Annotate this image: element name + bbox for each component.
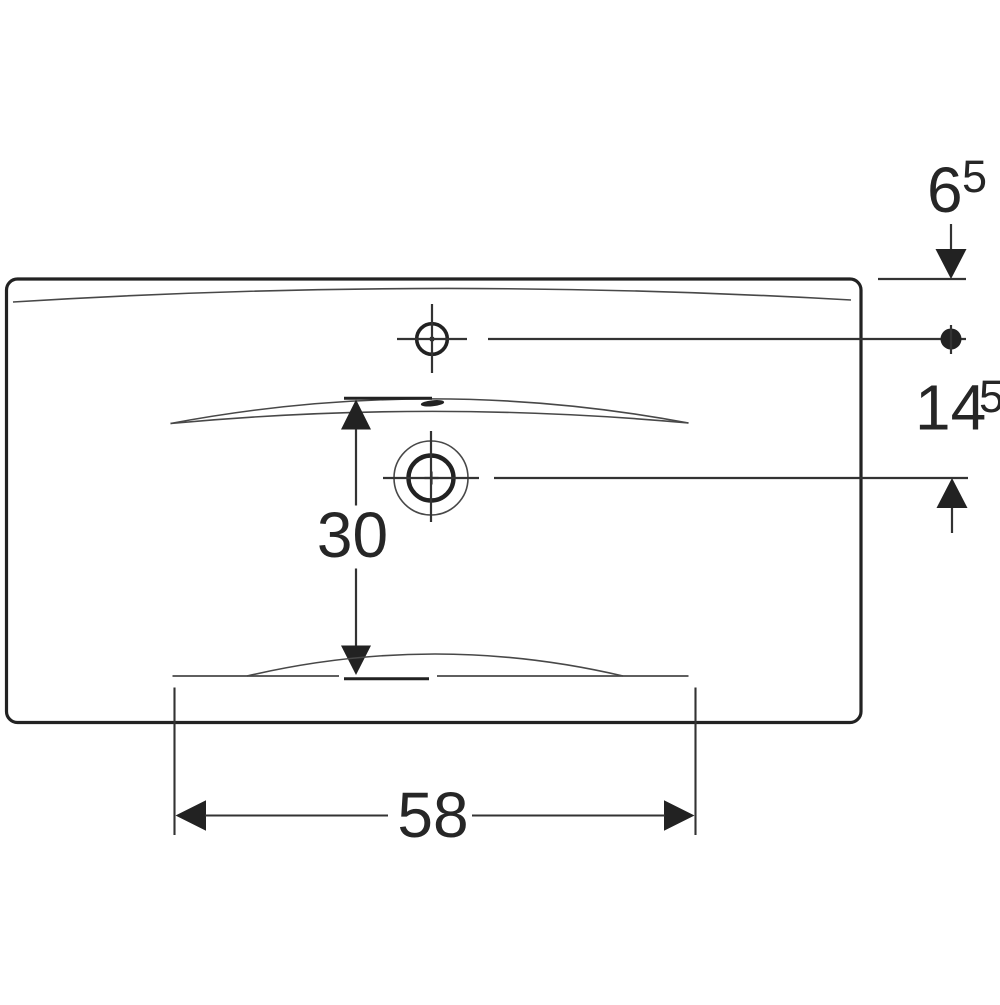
dimension 14-5 tail	[951, 508, 953, 533]
tap hole crosshair horizontal	[397, 338, 467, 340]
overflow hole	[421, 400, 444, 408]
dimension 58 line right segment	[472, 814, 665, 816]
dimension 30 line upper segment	[355, 430, 357, 506]
dimension 14-5 arrow up	[937, 478, 968, 508]
dimension 30 line lower segment	[355, 569, 357, 646]
dimension 30 bottom extension segment	[344, 677, 429, 680]
dimension 58 arrow right	[664, 800, 695, 831]
svg-text:58: 58	[397, 779, 468, 851]
drain crosshair vertical	[430, 431, 432, 522]
back edge curve	[13, 288, 851, 302]
dimension 6-5 leader line	[950, 224, 952, 251]
dimension 30 arrow down	[341, 646, 371, 676]
dimension dot terminator	[941, 329, 962, 350]
dimension 30 arrow up	[341, 400, 371, 430]
upper basin lens bottom arc	[171, 411, 689, 423]
tap hole circle	[417, 324, 448, 355]
dimension 30 top extension segment	[344, 397, 432, 400]
dimension 58 right extension line	[694, 688, 696, 836]
drain dimension line to right	[494, 477, 968, 479]
dimension 6-5 arrow down	[936, 249, 967, 279]
svg-text:30: 30	[317, 499, 388, 571]
svg-text:14: 14	[915, 372, 986, 444]
lower front edge arc	[247, 654, 623, 676]
dimension 58 left extension line	[173, 688, 175, 836]
drain inner circle	[409, 456, 454, 501]
drain crosshair horizontal	[383, 477, 479, 479]
upper basin lens top arc	[171, 399, 689, 424]
tap hole dimension line to right	[488, 338, 966, 340]
dimension 58 line left segment	[205, 814, 388, 816]
svg-text:5: 5	[979, 371, 1000, 422]
drain center plus	[425, 472, 439, 485]
top edge extension line	[878, 278, 966, 280]
dot tick vertical	[950, 325, 952, 354]
tap hole crosshair vertical	[431, 304, 433, 373]
lower front edge line left segment	[173, 675, 340, 677]
drain outer circle	[394, 441, 468, 515]
lower front edge line right segment	[437, 675, 689, 677]
svg-text:6: 6	[927, 154, 963, 226]
svg-text:5: 5	[962, 151, 987, 202]
basin outline rounded rectangle	[7, 279, 862, 723]
tap hole center dot	[429, 336, 434, 341]
dimension 58 arrow left	[176, 800, 207, 831]
